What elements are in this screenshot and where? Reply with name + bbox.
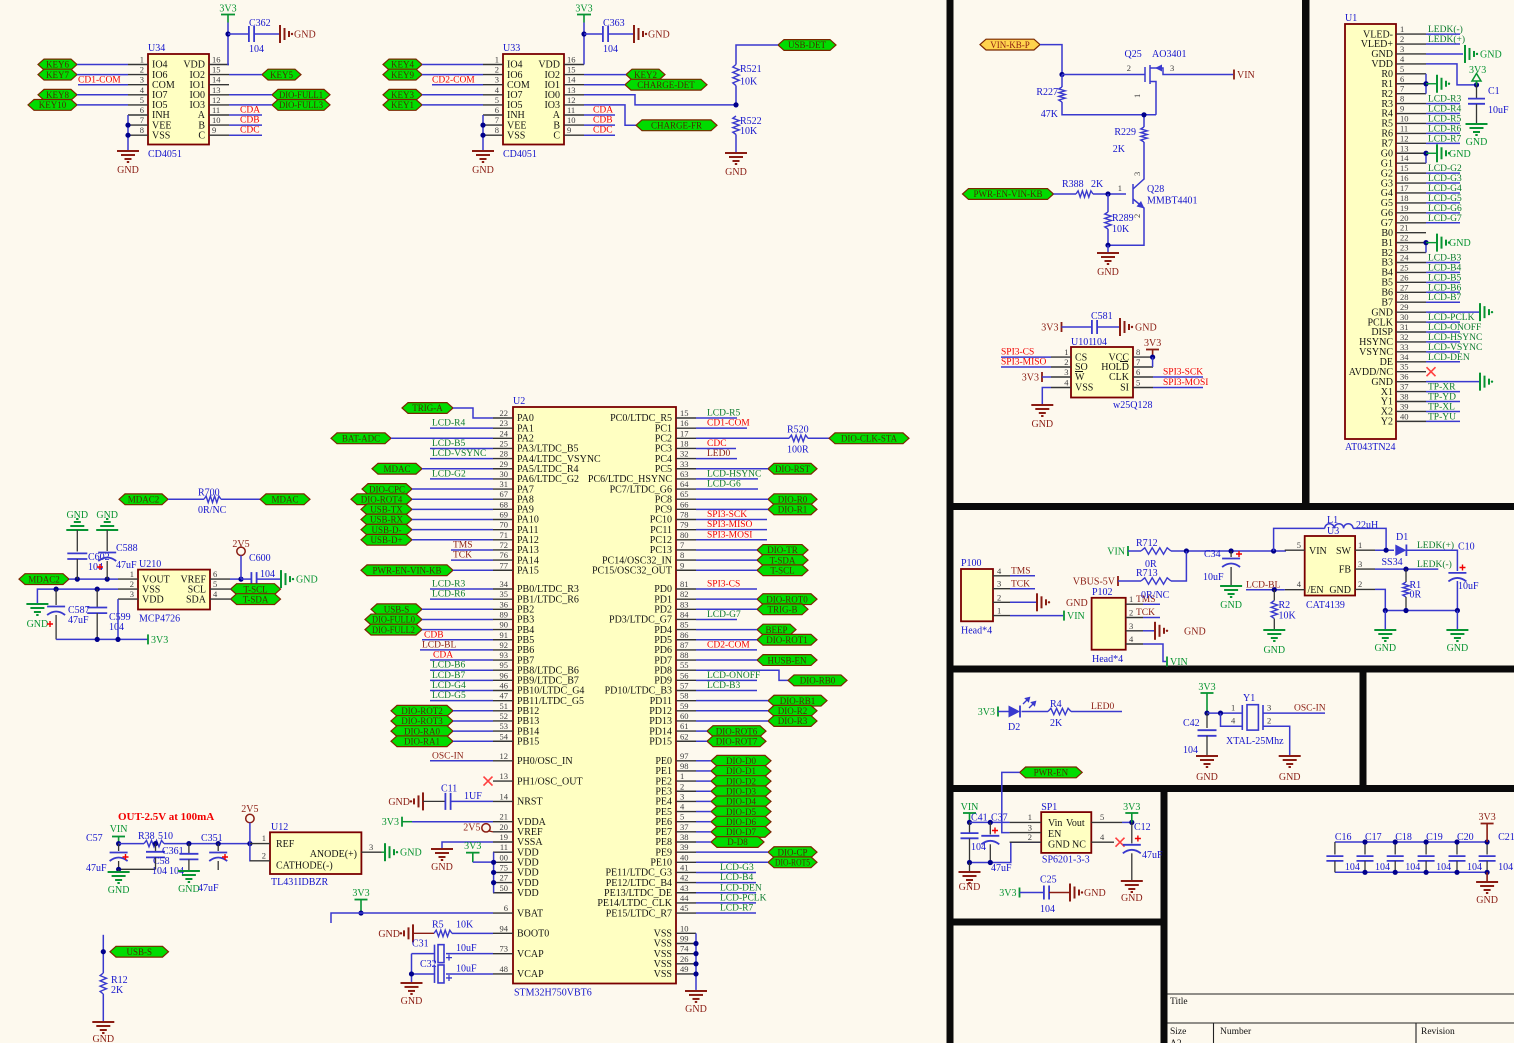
wire LCD-B5 bbox=[1426, 281, 1460, 283]
U1 pin 37 X1 bbox=[1396, 391, 1426, 393]
svg-text:10K: 10K bbox=[1279, 611, 1297, 622]
U2 pin 99 VSS bbox=[676, 943, 696, 945]
wire KEY3 pin4 bbox=[422, 94, 483, 96]
svg-text:KEY1: KEY1 bbox=[391, 100, 414, 110]
svg-text:GND: GND bbox=[472, 165, 494, 176]
svg-text:VSS: VSS bbox=[654, 969, 672, 980]
svg-text:GND: GND bbox=[1449, 149, 1471, 160]
U1 pin 35 AVDD/NC bbox=[1396, 371, 1426, 373]
transistor Q28 MMBT4401 NPN bbox=[1133, 176, 1145, 213]
svg-text:95: 95 bbox=[500, 660, 509, 670]
U1 pin 16 G3 bbox=[1396, 182, 1426, 184]
U33 pin 1 IO4 bbox=[483, 64, 503, 66]
net flag USB-D- bbox=[361, 524, 412, 535]
U2 pin 51 PB12 bbox=[493, 710, 513, 712]
svg-text:A2: A2 bbox=[1170, 1039, 1182, 1043]
svg-text:2: 2 bbox=[140, 65, 144, 75]
U3 pin 2 GND bbox=[1355, 588, 1375, 590]
U2 pin 77 PA15 bbox=[493, 569, 513, 571]
U1 pin 28 B7 bbox=[1396, 301, 1426, 303]
wire C11 to NRST bbox=[452, 800, 494, 802]
capacitor C20 bbox=[1456, 842, 1458, 855]
svg-text:16: 16 bbox=[567, 55, 576, 65]
junction C18 top bbox=[1393, 839, 1398, 844]
wire LCD-G3 bbox=[1426, 182, 1460, 184]
svg-text:3V3: 3V3 bbox=[464, 841, 481, 852]
ground GND (C25) bbox=[1069, 884, 1071, 902]
svg-text:DIO-D3: DIO-D3 bbox=[726, 786, 756, 796]
title block lines bbox=[1168, 994, 1514, 1043]
U1 pin 18 G5 bbox=[1396, 202, 1426, 204]
U34 pin 14 IO1 bbox=[209, 84, 229, 86]
wire DIO-FULL2 PB4 bbox=[422, 629, 493, 631]
wire U33 INH/VEE/VSS tie bbox=[482, 115, 484, 150]
svg-text:94: 94 bbox=[500, 923, 509, 933]
U2 pin 8 PC14/OSC32_IN bbox=[676, 559, 696, 561]
junction L1 node bbox=[1271, 548, 1276, 553]
svg-text:8: 8 bbox=[1400, 94, 1404, 104]
svg-text:R521: R521 bbox=[740, 64, 762, 75]
svg-text:SPI3-MISO: SPI3-MISO bbox=[1001, 358, 1047, 368]
wire C602 to node bbox=[76, 559, 78, 579]
svg-text:1: 1 bbox=[262, 833, 266, 843]
U101 pin 2 SO bbox=[1051, 366, 1071, 368]
IC U2 STM32H750VBT6 body bbox=[513, 407, 676, 984]
svg-text:19: 19 bbox=[500, 832, 509, 842]
svg-text:LCD-B5: LCD-B5 bbox=[432, 439, 466, 449]
svg-text:5: 5 bbox=[680, 812, 684, 822]
wire 3V3 VDDA bbox=[412, 821, 493, 823]
junction 3V3/C1 node bbox=[1474, 82, 1479, 87]
U2 pin 64 PC7/LTDC_G6 bbox=[676, 488, 696, 490]
capacitor C19 bbox=[1425, 842, 1427, 855]
wire 2V5 to REF bbox=[249, 823, 251, 844]
svg-text:3: 3 bbox=[1267, 703, 1271, 713]
net flag DIO-D6 bbox=[711, 816, 771, 827]
wire LCD-B4 bbox=[1426, 271, 1460, 273]
svg-text:6: 6 bbox=[1400, 74, 1404, 84]
svg-text:17: 17 bbox=[1400, 183, 1409, 193]
U33 pin 11 A bbox=[564, 114, 584, 116]
svg-text:VIN: VIN bbox=[110, 824, 128, 835]
svg-text:U34: U34 bbox=[148, 43, 165, 54]
svg-text:HUSB-EN: HUSB-EN bbox=[767, 655, 807, 665]
svg-text:6: 6 bbox=[495, 105, 499, 115]
svg-text:20: 20 bbox=[500, 822, 509, 832]
junction VEE bbox=[125, 123, 130, 128]
svg-text:13: 13 bbox=[1400, 143, 1409, 153]
wire TMS P100 bbox=[1010, 575, 1035, 577]
U2 pin 39 PE9 bbox=[676, 851, 696, 853]
svg-text:DIO-D5: DIO-D5 bbox=[726, 807, 756, 817]
junction rail left bbox=[1383, 608, 1388, 613]
resistor R520 bbox=[789, 435, 808, 441]
U2 pin 94 BOOT0 bbox=[493, 932, 513, 934]
U2 pin 73 VCAP bbox=[493, 953, 513, 955]
svg-text:104: 104 bbox=[1345, 862, 1360, 873]
svg-text:PC15/OSC32_OUT: PC15/OSC32_OUT bbox=[592, 565, 672, 576]
svg-text:Revision: Revision bbox=[1421, 1027, 1455, 1037]
svg-text:104: 104 bbox=[603, 44, 618, 55]
net flag MDAC2 (U210) bbox=[19, 574, 69, 585]
svg-text:DIO-ROT2: DIO-ROT2 bbox=[401, 706, 443, 716]
wire LCD-ONOFF bbox=[1426, 331, 1460, 333]
svg-text:10uF: 10uF bbox=[456, 943, 477, 954]
net flag KEY9 bbox=[383, 69, 422, 80]
wire pin15 KEY2 bbox=[584, 74, 626, 76]
wire R4 to LED0 bbox=[1071, 711, 1122, 713]
svg-text:33: 33 bbox=[1400, 342, 1409, 352]
wire BAT-ADC PA2 bbox=[391, 437, 493, 439]
wire 3V3 to crystal bbox=[1207, 712, 1242, 714]
svg-text:C: C bbox=[553, 130, 560, 141]
svg-text:DIO-RA1: DIO-RA1 bbox=[404, 736, 440, 746]
svg-text:34: 34 bbox=[1400, 352, 1409, 362]
SP1 pin 1 Vin bbox=[1010, 821, 1042, 823]
svg-text:MDAC: MDAC bbox=[271, 495, 298, 505]
svg-text:3: 3 bbox=[1028, 822, 1032, 832]
IC U210 MCP4726 body bbox=[138, 570, 210, 610]
svg-text:16: 16 bbox=[680, 418, 689, 428]
net flag KEY7 bbox=[38, 69, 77, 80]
svg-text:LED0: LED0 bbox=[707, 449, 730, 459]
svg-text:C1: C1 bbox=[1488, 86, 1500, 97]
svg-text:C581: C581 bbox=[1091, 311, 1113, 322]
svg-text:LCD-G7: LCD-G7 bbox=[707, 610, 741, 620]
wire crystal pin2 to gnd bbox=[1263, 726, 1290, 755]
svg-text:OSC-IN: OSC-IN bbox=[1294, 704, 1326, 714]
svg-text:C351: C351 bbox=[201, 833, 223, 844]
svg-text:CDB: CDB bbox=[424, 630, 444, 640]
power port 3V3 (flash W) bbox=[1041, 372, 1043, 382]
junction 3V3/C362 node bbox=[225, 31, 230, 36]
wire U1 pins 22-23 tie bbox=[1425, 243, 1427, 253]
net flag DIO-RST bbox=[768, 463, 817, 474]
svg-text:2: 2 bbox=[680, 781, 684, 791]
junction C37 top bbox=[988, 820, 993, 825]
wire INH/VEE/VSS tie bbox=[127, 115, 129, 150]
svg-text:LCD-B7: LCD-B7 bbox=[432, 671, 466, 681]
svg-text:KEY5: KEY5 bbox=[270, 70, 293, 80]
svg-text:GND: GND bbox=[648, 30, 670, 41]
svg-text:31: 31 bbox=[500, 479, 509, 489]
LED D2 bbox=[1009, 706, 1021, 718]
IC U3 CAT4139 body bbox=[1305, 536, 1355, 596]
svg-text:CDB: CDB bbox=[593, 116, 613, 126]
IC SP1 SP6201-3-3 body bbox=[1041, 812, 1091, 853]
P102 pin 1 bbox=[1126, 603, 1143, 605]
wire DIO-ROT7 bbox=[696, 740, 707, 742]
svg-text:104: 104 bbox=[1040, 904, 1055, 915]
U2 pin 88 PD7 bbox=[676, 659, 696, 661]
wire node to CATHODE bbox=[249, 844, 251, 861]
P100 pin 3 bbox=[993, 588, 1010, 590]
U2 pin 95 PB8/LTDC_B6 bbox=[493, 669, 513, 671]
svg-text:LCD-PCLK: LCD-PCLK bbox=[720, 893, 767, 903]
wire LCD-R6 bbox=[1426, 132, 1460, 134]
wire L1 to SW node bbox=[1353, 528, 1386, 550]
U2 pin 18 PC3 bbox=[676, 447, 696, 449]
net flag DIO-ROT5 bbox=[768, 857, 817, 868]
svg-text:5: 5 bbox=[1400, 64, 1404, 74]
wire SPI3-SCK pin6 bbox=[1153, 376, 1203, 378]
svg-text:12: 12 bbox=[212, 95, 221, 105]
svg-text:VIN: VIN bbox=[1309, 546, 1327, 557]
ground GND (U1 pin3) bbox=[1464, 45, 1466, 63]
svg-text:T-SCL: T-SCL bbox=[243, 584, 267, 594]
wire C31/C32 tie bbox=[411, 954, 413, 982]
svg-text:DIO-ROT0: DIO-ROT0 bbox=[766, 594, 808, 604]
svg-text:3V3: 3V3 bbox=[382, 817, 399, 828]
U2 pin 33 PC5 bbox=[676, 468, 696, 470]
net flag DIO-RB1 bbox=[768, 695, 827, 706]
IC U34 CD4051 body bbox=[148, 54, 209, 145]
svg-text:LCD-R4: LCD-R4 bbox=[432, 419, 466, 429]
svg-text:10: 10 bbox=[567, 115, 576, 125]
power port 3V3 (VDDA) bbox=[401, 817, 403, 827]
resistor R1 bbox=[1405, 569, 1407, 582]
wire bottom rail (LED driver) bbox=[1385, 610, 1457, 612]
wire node to C362 bbox=[228, 33, 249, 35]
svg-text:MDAC2: MDAC2 bbox=[128, 495, 160, 505]
U2 pin 36 PB2 bbox=[493, 608, 513, 610]
svg-text:CD2-COM: CD2-COM bbox=[707, 640, 750, 650]
svg-text:88: 88 bbox=[680, 650, 689, 660]
svg-text:99: 99 bbox=[680, 934, 689, 944]
svg-text:OSC-IN: OSC-IN bbox=[432, 751, 464, 761]
svg-text:C361: C361 bbox=[162, 846, 184, 857]
wire U1 pin29 GND bbox=[1426, 311, 1479, 313]
wire node up to L1 bbox=[1274, 528, 1325, 551]
svg-text:P100: P100 bbox=[961, 558, 982, 569]
U2 pin 4 PE5 bbox=[676, 811, 696, 813]
wire rail to gnd right bbox=[1456, 611, 1458, 630]
wire TMS P102 bbox=[1143, 603, 1160, 605]
svg-text:8: 8 bbox=[1136, 347, 1140, 357]
svg-text:30: 30 bbox=[500, 469, 509, 479]
U2 pin 23 PA1 bbox=[493, 427, 513, 429]
svg-text:58: 58 bbox=[680, 691, 689, 701]
junction C19 top bbox=[1424, 839, 1429, 844]
U2 pin 16 PC1 bbox=[676, 427, 696, 429]
wire LCD-R4 bbox=[1426, 113, 1460, 115]
svg-text:12: 12 bbox=[1400, 133, 1409, 143]
wire TRIG-A to PA0 bbox=[453, 408, 493, 418]
junction VSS bbox=[125, 133, 130, 138]
svg-text:14: 14 bbox=[212, 75, 221, 85]
svg-text:1: 1 bbox=[1400, 24, 1404, 34]
junction drain node bbox=[1141, 112, 1146, 117]
net flag DIO-CP bbox=[768, 847, 817, 858]
svg-text:SDA: SDA bbox=[186, 594, 207, 605]
U2 pin 76 PA14 bbox=[493, 559, 513, 561]
svg-text:84: 84 bbox=[680, 609, 689, 619]
svg-text:71: 71 bbox=[500, 530, 509, 540]
svg-text:1: 1 bbox=[495, 55, 499, 65]
svg-text:C: C bbox=[198, 130, 205, 141]
U3 pin 4 /EN bbox=[1285, 589, 1305, 591]
ground GND (C12) bbox=[1121, 880, 1143, 882]
wire PC2 to R520 bbox=[696, 437, 789, 439]
U2 pin 44 PE14/LTDC_CLK bbox=[676, 902, 696, 904]
svg-text:DIO-D4: DIO-D4 bbox=[726, 797, 756, 807]
junction VSS row 20 bbox=[693, 961, 698, 966]
wire 3V3 to VDD pin16 U33 bbox=[583, 23, 585, 65]
wire DIO-ROT0 bbox=[696, 598, 757, 600]
resistor R5 bbox=[434, 930, 452, 936]
wire KEY10 to pin5 bbox=[77, 104, 128, 106]
wire KEY7 to pin2 bbox=[77, 74, 128, 76]
wire U33 pin11 bbox=[584, 114, 615, 116]
svg-text:14: 14 bbox=[500, 791, 509, 801]
U1 pin 21 B0 bbox=[1396, 232, 1426, 234]
svg-text:MDAC: MDAC bbox=[383, 464, 410, 474]
wire pin13 to DIO-FULL1 bbox=[229, 94, 272, 96]
ground GND (U2 VSS) bbox=[685, 990, 707, 992]
wire LCD-DEN bbox=[1426, 361, 1460, 363]
U2 pin 48 VCAP bbox=[493, 973, 513, 975]
svg-text:KEY10: KEY10 bbox=[39, 100, 67, 110]
U210 pin 6 VREF bbox=[210, 578, 230, 580]
wire T-SDA bbox=[696, 559, 757, 561]
wire C31 left bbox=[412, 953, 435, 955]
svg-text:104: 104 bbox=[1436, 862, 1451, 873]
wire U1 pin36 GND bbox=[1426, 381, 1479, 383]
svg-text:LCD-G4: LCD-G4 bbox=[432, 681, 466, 691]
svg-text:TRIG-B: TRIG-B bbox=[768, 605, 798, 615]
svg-text:7: 7 bbox=[1400, 84, 1404, 94]
svg-text:GND: GND bbox=[1374, 643, 1396, 654]
crystal Y1 XTAL-25Mhz bbox=[1242, 705, 1263, 730]
svg-text:SPI3-MOSI: SPI3-MOSI bbox=[707, 530, 752, 540]
junction C17 bottom bbox=[1362, 870, 1367, 875]
svg-text:LEDK(-): LEDK(-) bbox=[1417, 559, 1452, 570]
resistor R289 bbox=[1107, 194, 1109, 212]
net flag DIO-D3 bbox=[711, 786, 771, 797]
svg-text:LCD-G6: LCD-G6 bbox=[707, 480, 741, 490]
U1 pin 27 B6 bbox=[1396, 291, 1426, 293]
svg-text:104: 104 bbox=[1498, 862, 1513, 873]
net flag CHARGE-DET bbox=[625, 79, 707, 90]
svg-text:R520: R520 bbox=[787, 424, 809, 435]
svg-text:PB15: PB15 bbox=[517, 736, 539, 747]
wire DIO-D5 bbox=[696, 811, 711, 813]
ground GND (C361) bbox=[178, 870, 200, 872]
junction R1 pin6 bbox=[1423, 81, 1428, 86]
wire U33 pin10 bbox=[584, 124, 615, 126]
wire VIN to Vin pin bbox=[970, 821, 1010, 823]
wire CDC pin9 bbox=[229, 134, 262, 136]
U1 pin 7 R2 bbox=[1396, 93, 1426, 95]
svg-text:43: 43 bbox=[680, 883, 689, 893]
wire 3V3 to D2 bbox=[998, 711, 1009, 713]
wire VIN to R712 bbox=[1128, 550, 1141, 552]
junction C21 bottom bbox=[1485, 870, 1490, 875]
sheet border vertical 4 bbox=[1161, 785, 1168, 1043]
U2 pin 80 PC12 bbox=[676, 539, 696, 541]
svg-text:37: 37 bbox=[1400, 382, 1409, 392]
svg-text:3V3: 3V3 bbox=[999, 888, 1016, 899]
power port 3V3 (U33) bbox=[583, 15, 585, 23]
svg-text:GND: GND bbox=[388, 797, 410, 808]
U2 pin 3 PE4 bbox=[676, 800, 696, 802]
svg-text:45: 45 bbox=[680, 903, 689, 913]
svg-text:47K: 47K bbox=[1041, 109, 1059, 120]
svg-text:3: 3 bbox=[997, 579, 1001, 589]
ground GND (Y1) bbox=[1279, 755, 1301, 757]
net flag DIO-D7 bbox=[711, 826, 771, 837]
net flag USB-RX bbox=[361, 514, 412, 525]
U2 pin 34 PB0/LTDC_R3 bbox=[493, 588, 513, 590]
svg-text:USB-D+: USB-D+ bbox=[370, 535, 402, 545]
U1 pin 2 VLED+ bbox=[1396, 43, 1426, 45]
wire DIO-R3 bbox=[696, 720, 768, 722]
svg-text:P102: P102 bbox=[1092, 587, 1113, 598]
P102 pin 4 bbox=[1126, 643, 1143, 645]
wire D1 to C10 bbox=[1406, 550, 1457, 571]
svg-text:2: 2 bbox=[1358, 579, 1362, 589]
svg-text:NRST: NRST bbox=[517, 797, 543, 808]
wire PWR-EN to EN pin bbox=[1002, 772, 1020, 832]
wire CDA PB7 bbox=[430, 659, 493, 661]
svg-text:00: 00 bbox=[500, 852, 509, 862]
svg-text:C362: C362 bbox=[249, 18, 271, 29]
wire TP-XL bbox=[1426, 410, 1460, 412]
svg-text:1: 1 bbox=[1358, 540, 1362, 550]
junction 3V3/C363 node bbox=[581, 31, 586, 36]
capacitor C581 bbox=[1091, 320, 1093, 334]
wire R712 to VIN node bbox=[1171, 550, 1286, 552]
svg-text:31: 31 bbox=[1400, 322, 1409, 332]
U33 pin 5 IO5 bbox=[483, 104, 503, 106]
svg-text:Q25: Q25 bbox=[1125, 49, 1142, 60]
svg-text:GND: GND bbox=[401, 996, 423, 1007]
wire LCD-G7 bbox=[696, 618, 737, 620]
U2 pin 66 PC9 bbox=[676, 508, 696, 510]
wire C588 to node bbox=[106, 561, 108, 579]
svg-text:10: 10 bbox=[212, 115, 221, 125]
U1 pin 22 B1 bbox=[1396, 242, 1426, 244]
svg-text:DIO-FULL3: DIO-FULL3 bbox=[279, 100, 323, 110]
svg-text:21: 21 bbox=[500, 812, 509, 822]
junction VDD 100 bbox=[491, 860, 496, 865]
U210 pin 5 SCL bbox=[210, 588, 230, 590]
svg-text:DIO-FULL2: DIO-FULL2 bbox=[372, 625, 415, 635]
wire rail to gnd left bbox=[1384, 611, 1386, 630]
svg-text:13: 13 bbox=[212, 85, 221, 95]
svg-text:10K: 10K bbox=[740, 126, 758, 137]
U1 pin 17 G4 bbox=[1396, 192, 1426, 194]
U2 pin 37 PE7 bbox=[676, 831, 696, 833]
capacitor C1 bbox=[1476, 85, 1478, 98]
svg-text:Head*4: Head*4 bbox=[961, 626, 992, 637]
svg-text:BAT-ADC: BAT-ADC bbox=[342, 434, 380, 444]
svg-text:SPI3-SCK: SPI3-SCK bbox=[707, 510, 747, 520]
U1 pin 14 G1 bbox=[1396, 162, 1426, 164]
svg-text:LCD-HSYNC: LCD-HSYNC bbox=[707, 469, 761, 479]
junction rail C10 bbox=[1455, 608, 1460, 613]
no-connect X pin35 bbox=[1427, 367, 1436, 376]
wire gnd to C588 bbox=[106, 530, 108, 551]
U1 pin 39 X2 bbox=[1396, 410, 1426, 412]
svg-text:15: 15 bbox=[1400, 163, 1409, 173]
wire TCK P100 bbox=[1010, 588, 1035, 590]
svg-text:R38: R38 bbox=[138, 831, 155, 842]
svg-text:DIO-ROT7: DIO-ROT7 bbox=[716, 736, 758, 746]
svg-text:5: 5 bbox=[1100, 812, 1104, 822]
svg-text:CDA: CDA bbox=[433, 651, 453, 661]
U2 pin 20 VREF bbox=[493, 831, 513, 833]
